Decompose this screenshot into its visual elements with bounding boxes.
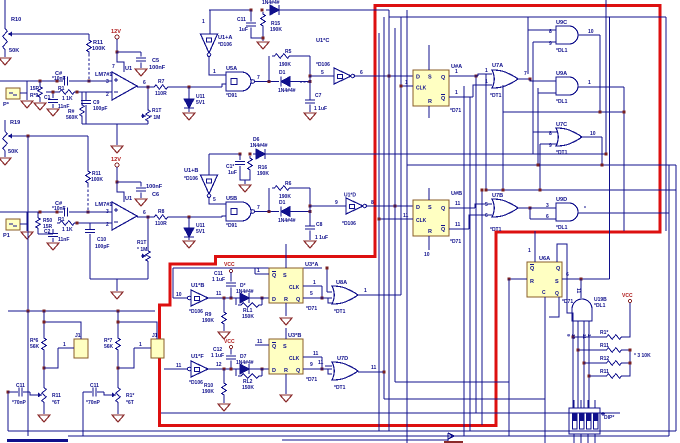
junction xyxy=(223,297,226,300)
wire C5 bottom xyxy=(140,63,142,69)
junction xyxy=(588,375,591,378)
potentiometer R21 xyxy=(42,385,47,405)
DIP switch DIP* xyxy=(569,408,600,434)
wire pot A top xyxy=(43,352,45,385)
diode D7 1N4148 xyxy=(240,364,249,374)
wire to C1 xyxy=(52,92,54,98)
wire bus v2 xyxy=(378,33,380,431)
svg-text:1 1uF: 1 1uF xyxy=(314,106,327,112)
wire gate out xyxy=(255,81,279,83)
wire C12 stem xyxy=(239,154,241,160)
svg-text:CLK: CLK xyxy=(416,86,427,92)
wire jog to gate input xyxy=(222,84,226,87)
svg-text:6: 6 xyxy=(566,272,569,278)
junction xyxy=(529,207,532,210)
wire left edge vertical xyxy=(7,392,9,431)
wire xyxy=(17,33,89,35)
wire rail right ch1 xyxy=(279,9,389,11)
svg-text:*D91: *D91 xyxy=(226,223,237,229)
svg-text:P1: P1 xyxy=(3,233,10,239)
svg-text:*DL1: *DL1 xyxy=(556,99,568,105)
wire U4B S pin xyxy=(428,188,430,200)
wire to wiper A xyxy=(30,392,36,395)
wire clk tie xyxy=(321,286,323,298)
svg-text:*D106: *D106 xyxy=(342,221,356,227)
svg-text:5V1: 5V1 xyxy=(196,229,205,235)
wire mid v3 xyxy=(475,76,477,413)
wire bus v6 xyxy=(406,10,408,443)
wire U6A top pin1 xyxy=(534,231,536,262)
wire U9D in2 xyxy=(530,218,556,220)
wire jog to gate2 xyxy=(222,216,226,217)
wire buffer4 in xyxy=(164,368,188,370)
ground under zener2 xyxy=(183,241,195,248)
wire C1 down xyxy=(52,104,54,108)
junction xyxy=(321,297,324,300)
svg-text:VCC: VCC xyxy=(224,262,235,268)
wire bus v3 xyxy=(383,17,385,399)
capacitor C6 xyxy=(136,188,146,191)
svg-text:U1+B: U1+B xyxy=(184,168,198,174)
wire bus v7 xyxy=(485,74,487,190)
svg-text:100nF: 100nF xyxy=(149,65,166,71)
pin circle 12V ch2 xyxy=(115,163,119,167)
svg-text:5: 5 xyxy=(310,291,313,297)
svg-text:*DT1: *DT1 xyxy=(334,385,346,391)
wire to C6 xyxy=(117,181,141,183)
junction xyxy=(116,181,119,184)
junction xyxy=(250,9,253,12)
wire rail y399 xyxy=(384,398,545,400)
svg-text:*D106: *D106 xyxy=(184,176,198,182)
junction xyxy=(321,368,324,371)
wire mid v1 xyxy=(463,86,465,436)
svg-text:3: 3 xyxy=(546,203,549,209)
ground under R10 xyxy=(0,58,11,65)
wire DIP out3 xyxy=(587,434,589,443)
wire U7C out down xyxy=(601,137,603,165)
svg-text:12: 12 xyxy=(216,362,222,368)
wire R9 top xyxy=(39,81,41,85)
wire VCC2 down xyxy=(230,349,232,355)
wire rail y112 left end xyxy=(502,85,504,112)
buffer U1*E xyxy=(191,290,208,306)
capacitor C11 (A) xyxy=(19,388,22,397)
wire U4A Qbar xyxy=(449,96,473,98)
wire U6A wrap xyxy=(557,244,573,321)
ground under R10 190K xyxy=(218,404,230,411)
wire R10b down xyxy=(223,397,225,403)
svg-text:5: 5 xyxy=(485,202,488,208)
wire Q to U7A xyxy=(478,74,492,76)
wire Qbar to U7B xyxy=(469,215,492,229)
potentiometer R22 xyxy=(116,385,121,405)
svg-text:1: 1 xyxy=(63,342,66,348)
svg-text:1N4#4#: 1N4#4# xyxy=(250,143,268,149)
junction xyxy=(378,218,381,221)
resistor R*9 15R xyxy=(38,85,43,99)
svg-text:190K: 190K xyxy=(279,62,291,68)
capacitor C10 xyxy=(85,230,95,233)
svg-text:Q: Q xyxy=(296,297,301,303)
svg-text:D: D xyxy=(416,205,420,211)
svg-text:100K: 100K xyxy=(91,177,103,183)
svg-text:C11: C11 xyxy=(90,383,99,389)
svg-text:U6A: U6A xyxy=(539,256,550,262)
svg-text:1N4#4#: 1N4#4# xyxy=(262,0,280,6)
svg-text:11: 11 xyxy=(257,339,263,345)
svg-text:U5A: U5A xyxy=(226,66,237,72)
svg-text:190K: 190K xyxy=(202,318,214,324)
junction output ch2 xyxy=(147,216,150,219)
OR gate U7A xyxy=(492,70,518,88)
capacitor C11 xyxy=(246,23,256,26)
capacitor C11 (B) xyxy=(93,388,96,397)
svg-text:8: 8 xyxy=(371,200,374,206)
op-amp U1 (LM741) channel1 xyxy=(112,72,137,100)
ground under R19 xyxy=(0,158,11,165)
wire DIP out1 xyxy=(573,434,575,443)
junction xyxy=(268,210,271,213)
svg-text:Q: Q xyxy=(441,75,446,81)
wire bus v11 xyxy=(539,144,541,190)
wire U7B out xyxy=(518,207,530,209)
wire node down ch2 xyxy=(309,206,311,226)
wire R6 down xyxy=(309,188,311,206)
diode D4 1N4148 xyxy=(240,293,249,303)
wire U4B Q xyxy=(449,207,475,209)
svg-text:1: 1 xyxy=(588,80,591,86)
svg-text:* 3 10K: * 3 10K xyxy=(634,353,651,359)
svg-text:R: R xyxy=(284,297,288,303)
wire R50 top xyxy=(37,212,39,216)
highlight outline (selection) polygon xyxy=(160,6,661,426)
svg-text:6: 6 xyxy=(360,70,363,76)
ground under C1b xyxy=(47,243,59,250)
junction xyxy=(223,368,226,371)
AND gate U9D xyxy=(556,203,578,221)
wire xyxy=(17,135,88,137)
wire C8 down xyxy=(309,231,311,241)
svg-text:R1*: R1* xyxy=(600,330,608,336)
junction xyxy=(583,362,586,365)
wire U6A Q wrap xyxy=(549,297,559,317)
svg-text:5: 5 xyxy=(213,197,216,203)
svg-text:S: S xyxy=(283,273,287,279)
wire pin1 up xyxy=(254,268,256,274)
ground U3A xyxy=(280,318,292,325)
wire rail right ch2 xyxy=(265,153,606,155)
svg-text:1: 1 xyxy=(313,280,316,286)
svg-text:Q: Q xyxy=(441,227,446,233)
svg-text:15R: 15R xyxy=(30,86,40,92)
wire buffer4 out xyxy=(208,368,240,370)
ground under C1 xyxy=(47,109,59,116)
wire top rail ch1 xyxy=(209,9,251,11)
svg-text:190K: 190K xyxy=(202,389,214,395)
junction in+ ch2 xyxy=(87,211,90,214)
svg-text:U1*F: U1*F xyxy=(191,354,204,360)
svg-text:1: 1 xyxy=(364,288,367,294)
wire R5 down xyxy=(309,56,311,76)
junction xyxy=(27,135,30,138)
wire R50 to C1b xyxy=(38,233,53,235)
inverter U1*B xyxy=(201,175,218,194)
wire pot R10 top lead xyxy=(4,0,6,25)
wire rect top mid xyxy=(173,267,322,269)
wire U3A pin1 xyxy=(255,273,269,275)
svg-text:1: 1 xyxy=(528,248,531,254)
svg-text:D1: D1 xyxy=(279,70,286,76)
wire U9A out xyxy=(578,86,624,88)
svg-text:R10: R10 xyxy=(11,17,21,23)
svg-text:*DT1: *DT1 xyxy=(490,227,502,233)
svg-text:U5B: U5B xyxy=(226,196,237,202)
wire clk tie2 xyxy=(321,357,323,369)
svg-text:U7B: U7B xyxy=(492,193,503,199)
svg-text:5V1: 5V1 xyxy=(196,100,205,106)
junction xyxy=(230,368,233,371)
wire to wiper B xyxy=(104,392,110,395)
capacitor C7 xyxy=(305,100,315,103)
svg-text:11: 11 xyxy=(216,291,222,297)
svg-text:R1*: R1* xyxy=(126,393,134,399)
wire dash xyxy=(300,81,310,83)
svg-text:100K: 100K xyxy=(92,46,105,52)
DIP switch element 3 xyxy=(587,413,592,429)
wire to R6 left xyxy=(268,188,270,212)
svg-text:LM7#1: LM7#1 xyxy=(95,202,112,208)
wire R8 to gate xyxy=(170,216,222,218)
svg-text:11: 11 xyxy=(313,351,319,357)
wire U9C in2 xyxy=(533,41,556,43)
junction xyxy=(188,216,191,219)
wire C11 bottom xyxy=(251,28,262,39)
wire U3B Q out xyxy=(303,368,332,370)
svg-text:11: 11 xyxy=(575,288,581,294)
wire C11b right xyxy=(97,391,104,393)
wire to R5 left xyxy=(268,56,270,82)
wire U19B out xyxy=(580,279,582,298)
svg-text:U8A: U8A xyxy=(336,280,347,286)
junction xyxy=(539,189,542,192)
wire to C9 xyxy=(85,92,87,100)
svg-text:* 1M: * 1M xyxy=(150,115,160,121)
connector J1 (A) xyxy=(74,339,88,358)
svg-text:56K: 56K xyxy=(30,344,40,350)
svg-text:R11: R11 xyxy=(600,369,609,375)
connector flag bottom xyxy=(448,433,454,441)
resistor R11 (d) xyxy=(604,374,624,379)
wire opamp2 out xyxy=(137,216,152,218)
wire far right v1 xyxy=(668,165,670,436)
svg-text:R11: R11 xyxy=(52,393,61,399)
ground under C5 xyxy=(135,69,147,76)
wire U7D in1 xyxy=(325,365,332,367)
svg-text:U3*A: U3*A xyxy=(305,262,318,268)
capacitor C9 xyxy=(81,101,91,104)
resistor R6 190K xyxy=(272,186,292,191)
svg-text:1: 1 xyxy=(139,342,142,348)
svg-text:U9D: U9D xyxy=(556,197,567,203)
wire to R1c xyxy=(584,362,604,364)
wire Q to U7B xyxy=(475,204,492,208)
svg-text:1N4#4#: 1N4#4# xyxy=(236,289,254,295)
wire zener2 gnd xyxy=(188,237,190,240)
wire pot B bottom xyxy=(117,405,119,414)
svg-text:11: 11 xyxy=(455,222,461,228)
wire to R5 560K xyxy=(81,92,83,103)
buffer U1*C xyxy=(334,68,351,84)
svg-text:DIP*: DIP* xyxy=(604,415,614,421)
wire U9A out down xyxy=(623,87,625,231)
wire rail y440 xyxy=(282,439,448,441)
svg-text:*D91: *D91 xyxy=(226,93,237,99)
wire bus v5 xyxy=(400,17,402,295)
svg-text:12V: 12V xyxy=(111,157,121,163)
svg-text:U1: U1 xyxy=(125,66,132,72)
svg-text:Q: Q xyxy=(272,273,277,279)
resistor R11 (ch2) xyxy=(86,169,91,185)
wire R560K down xyxy=(81,118,83,124)
svg-text:*D71: *D71 xyxy=(306,377,317,383)
svg-text:1 1K: 1 1K xyxy=(62,227,73,233)
wire to zener xyxy=(188,87,190,99)
svg-text:J1: J1 xyxy=(75,333,81,339)
wire 12V to C5 xyxy=(117,51,141,53)
junction xyxy=(117,321,120,324)
wire rail ch2 xyxy=(209,153,240,155)
wire R19 top lead xyxy=(4,120,6,128)
wire rail y190 xyxy=(486,189,676,191)
wire zener gnd xyxy=(188,108,190,112)
svg-text:*DL1: *DL1 xyxy=(556,48,568,54)
wire D7 to FF xyxy=(249,368,269,370)
wire J1a top pin xyxy=(44,322,81,339)
junction xyxy=(56,211,59,214)
svg-text:P*: P* xyxy=(3,102,10,108)
DIP switch element 2 xyxy=(580,413,585,429)
resistor R* 560K xyxy=(80,103,85,118)
junction xyxy=(572,336,575,339)
svg-text:*D106: *D106 xyxy=(189,309,203,315)
svg-text:*DT1: *DT1 xyxy=(490,93,502,99)
wire U9D feed v xyxy=(529,208,531,219)
wire to C2 xyxy=(0,80,63,82)
wire R1b to in- xyxy=(77,222,112,224)
wire rl2 l xyxy=(235,369,237,376)
svg-text:190K: 190K xyxy=(270,27,282,33)
wire P1 node xyxy=(26,212,28,231)
wire Qbar to U7A xyxy=(473,85,492,97)
svg-text:150K: 150K xyxy=(242,314,254,320)
wire U9D out xyxy=(578,212,669,214)
flip-flop U6A xyxy=(527,262,562,297)
svg-text:Q: Q xyxy=(441,206,446,212)
svg-text:CLK: CLK xyxy=(289,285,300,291)
svg-text:56K: 56K xyxy=(104,344,114,350)
svg-text:CLK: CLK xyxy=(289,356,300,362)
pin circle VCC3 xyxy=(628,299,631,302)
svg-text:R5: R5 xyxy=(285,49,292,55)
wire R10 bottom xyxy=(4,53,6,57)
svg-text:R: R xyxy=(428,229,432,235)
wire to zener2 xyxy=(188,217,190,228)
ground near P* xyxy=(21,101,33,108)
flip-flop U4A xyxy=(413,70,449,106)
svg-text:D1: D1 xyxy=(279,200,286,206)
resistor R50 15R xyxy=(36,216,41,230)
junction xyxy=(629,362,632,365)
wire rect left mid xyxy=(172,268,174,298)
junction xyxy=(76,91,79,94)
svg-text:7: 7 xyxy=(257,205,260,211)
wire to R11b xyxy=(87,136,89,169)
svg-text:100nF: 100nF xyxy=(146,184,163,190)
svg-text:C11: C11 xyxy=(16,383,25,389)
wire to C10 xyxy=(89,223,91,229)
capacitor C8 xyxy=(305,226,315,229)
svg-text:C6: C6 xyxy=(152,192,159,198)
ground under R15 xyxy=(257,42,269,49)
svg-text:1 1uF: 1 1uF xyxy=(212,277,225,283)
resistor R10 190K xyxy=(222,381,227,397)
resistor R*6 56K xyxy=(42,336,47,352)
wire U3B clk out xyxy=(303,356,322,358)
flip-flop U4B xyxy=(413,200,449,236)
resistor RL2 150K xyxy=(238,374,262,379)
junction xyxy=(605,153,608,156)
svg-text:Q: Q xyxy=(296,368,301,374)
svg-text:Q: Q xyxy=(555,291,559,297)
OR gate U7D xyxy=(332,362,358,380)
svg-text:R11: R11 xyxy=(600,343,609,349)
svg-text:5: 5 xyxy=(321,70,324,76)
wire U3A bottom pin xyxy=(285,303,287,316)
junction xyxy=(502,189,505,192)
svg-text:9: 9 xyxy=(310,362,313,368)
flip-flop U3B xyxy=(269,339,303,374)
svg-text:S: S xyxy=(428,75,432,81)
pin circle VCC1 xyxy=(229,269,232,272)
wire long vertical x609 xyxy=(609,17,611,279)
inverter U1*A xyxy=(201,34,218,53)
svg-text:110R: 110R xyxy=(155,91,167,97)
wire DIP in3 xyxy=(587,400,589,408)
wire trimpot bottom xyxy=(147,123,149,124)
junction xyxy=(383,371,386,374)
wire U3B top pin xyxy=(285,328,287,339)
svg-text:6: 6 xyxy=(143,210,146,216)
ground under R16 xyxy=(239,185,251,192)
wire gnd stem ch2 xyxy=(116,279,118,291)
wire VCC1 down xyxy=(230,272,232,282)
svg-text:*6T: *6T xyxy=(126,400,134,406)
svg-text:6: 6 xyxy=(546,214,549,220)
wire U4B Qbar xyxy=(449,228,469,230)
svg-text:LM7#1: LM7#1 xyxy=(95,72,112,78)
wire U9D in1 xyxy=(530,207,556,209)
wire U7C in2 xyxy=(540,143,558,145)
wire U8A in1 feed xyxy=(326,268,328,292)
junction xyxy=(580,278,583,281)
wire U9C in1 xyxy=(528,29,556,31)
wire C11a right xyxy=(23,391,30,393)
wire C11b left xyxy=(83,391,92,393)
junction xyxy=(481,189,484,192)
svg-text:*D71: *D71 xyxy=(450,239,461,245)
resistor R12 (c) xyxy=(604,361,624,366)
